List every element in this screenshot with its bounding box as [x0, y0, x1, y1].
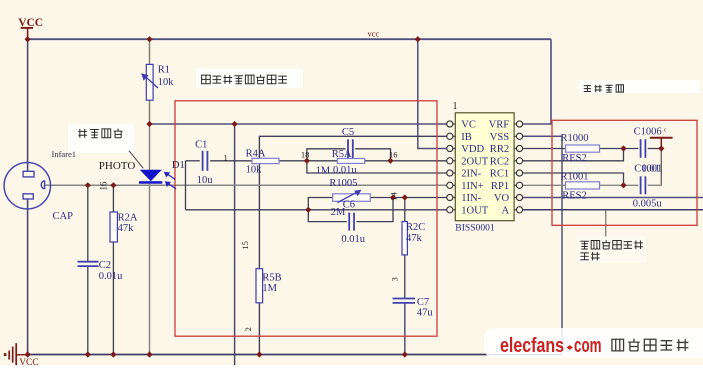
wire 2IN- branch	[307, 161, 447, 173]
wire C1 left	[186, 160, 200, 162]
red box signal amplifier/filter section	[175, 101, 437, 336]
capacitor C1	[202, 151, 204, 171]
capacitor C2	[78, 261, 99, 263]
svg-text:2M: 2M	[331, 207, 346, 218]
wire RR2 to R1000	[523, 148, 566, 150]
wire R5A to 2OUT pin	[365, 160, 447, 162]
wire C5 right jog	[355, 149, 390, 161]
svg-text:vcc: vcc	[368, 29, 380, 39]
svg-text:16: 16	[99, 181, 109, 191]
wire 1IN+ long signal	[45, 184, 447, 186]
svg-text:elecfans: elecfans	[500, 335, 564, 357]
junction C1006 VCC node	[658, 145, 664, 151]
capacitor C1006	[640, 139, 642, 158]
junction 1OUT feedback tap	[305, 207, 311, 213]
svg-text:PHOTO: PHOTO	[99, 160, 136, 172]
svg-text:2: 2	[243, 327, 253, 331]
photodiode D1	[140, 170, 162, 181]
svg-text:BISS0001: BISS0001	[455, 222, 495, 233]
svg-text:0.01u: 0.01u	[341, 234, 365, 245]
resistor R5B body	[256, 269, 263, 303]
wire R1000 to C1006	[600, 148, 639, 150]
svg-text:Infare1: Infare1	[52, 149, 77, 159]
wire RC2 jog	[523, 149, 624, 161]
wire IB to R5B	[259, 136, 446, 268]
junction RR2/RC2 node	[620, 145, 626, 151]
junction C7 ground	[402, 351, 408, 357]
pin RR2	[516, 145, 522, 151]
wire C6 right jog	[357, 198, 394, 222]
wire C2 top	[87, 185, 89, 261]
pin 2OUT	[447, 158, 453, 164]
pin IB	[447, 133, 453, 139]
resistor R1 arrow	[145, 76, 158, 88]
pin 1IN+	[447, 182, 453, 188]
wire R5B bottom	[258, 303, 260, 355]
watermark band	[484, 328, 703, 358]
wire R2A bottom	[112, 242, 114, 355]
wire D1 anode	[149, 124, 151, 170]
svg-text:0.005u: 0.005u	[633, 199, 663, 210]
junction R2A ground	[110, 351, 116, 357]
wire 1OUT row	[186, 209, 447, 211]
svg-text:CAP: CAP	[53, 211, 74, 222]
junction R5B ground	[256, 351, 262, 357]
wire C1001 right	[648, 184, 662, 186]
svg-text:VSS: VSS	[490, 132, 510, 143]
svg-text:R1000: R1000	[561, 133, 589, 144]
wire left rail lower	[27, 199, 29, 355]
svg-text:C2: C2	[99, 260, 111, 271]
pin 1OUT	[447, 207, 453, 213]
wire VSS down	[523, 136, 562, 354]
svg-text:2IN-: 2IN-	[461, 169, 481, 180]
svg-text:R1: R1	[158, 65, 170, 76]
resistor R1001 body	[566, 182, 600, 189]
svg-text:R1005: R1005	[329, 178, 357, 189]
svg-text:1OUT: 1OUT	[461, 205, 489, 216]
svg-text:C7: C7	[417, 297, 429, 308]
photodiode light arrows	[168, 174, 176, 179]
svg-text:10k: 10k	[246, 165, 263, 176]
svg-text:R2C: R2C	[406, 222, 425, 233]
svg-text:0.01: 0.01	[642, 164, 660, 175]
junction VCC rail left	[25, 36, 31, 42]
svg-text:1M: 1M	[316, 165, 331, 176]
svg-text:10k: 10k	[158, 77, 175, 88]
pin VO	[516, 194, 522, 200]
svg-text:47u: 47u	[417, 308, 434, 319]
junction ground rail left	[25, 351, 31, 357]
svg-text:0.01u: 0.01u	[333, 165, 357, 176]
wire R1 bottom	[149, 100, 151, 124]
capacitor C7	[393, 298, 416, 300]
svg-text:15: 15	[240, 241, 250, 250]
annotation: retrigger control line 1	[580, 241, 588, 249]
annotation: photoresistor	[78, 129, 87, 138]
capacitor C5	[347, 139, 349, 158]
pin VRF	[516, 121, 522, 127]
junction R1 bottom node	[146, 121, 152, 127]
wire 1OUT riser	[185, 161, 187, 210]
wire VCC top rail	[28, 38, 551, 40]
svg-text:R5A: R5A	[332, 149, 352, 160]
wire C7 to ground rail	[404, 303, 406, 354]
wire D1 cathode to ground rail	[149, 184, 151, 355]
svg-text:RES2: RES2	[562, 153, 587, 164]
capacitor C6	[348, 213, 350, 231]
svg-text:18: 18	[301, 150, 310, 160]
svg-text:1IN+: 1IN+	[461, 181, 483, 192]
wire C1 to R4A	[210, 160, 252, 162]
svg-text:14: 14	[389, 192, 399, 201]
junction node 16	[387, 158, 393, 164]
svg-text:D1: D1	[172, 160, 185, 171]
pin RC1	[516, 170, 522, 176]
svg-text:47k: 47k	[118, 223, 135, 234]
wire VCC stem	[27, 28, 29, 39]
red box delay section	[552, 120, 697, 225]
wire VRF to VCC rail	[523, 39, 551, 124]
pin 2IN-	[447, 170, 453, 176]
svg-text:1: 1	[224, 152, 228, 162]
annotation: delay circuit	[584, 86, 591, 92]
connector CAP (Infare1) body	[4, 163, 50, 209]
wire R1001 to C1001	[600, 184, 639, 186]
junction R2C tap	[402, 194, 408, 200]
wire caps right riser	[660, 149, 662, 186]
resistor R2C body	[402, 222, 407, 255]
wire C1006 right	[648, 148, 662, 150]
svg-text:VO: VO	[494, 193, 510, 204]
junction R2A tap	[110, 182, 116, 188]
power bar VCC (delay)	[650, 137, 673, 139]
junction VDD drop	[415, 36, 421, 42]
svg-text:VDD: VDD	[461, 144, 484, 155]
svg-text:1IN-: 1IN-	[461, 193, 481, 204]
svg-text:47k: 47k	[406, 233, 423, 244]
junction C2 ground	[85, 351, 91, 357]
resistor R1000 body	[566, 145, 600, 152]
wire RC1 jog	[523, 173, 624, 185]
junction R1 top	[146, 36, 152, 42]
svg-text:VC: VC	[461, 120, 476, 131]
wire C2 bottom	[87, 267, 89, 355]
svg-text:1: 1	[453, 101, 458, 112]
label background boxes	[196, 69, 303, 89]
pin VSS	[516, 133, 522, 139]
svg-text:R4A: R4A	[246, 148, 266, 159]
resistor R1 body	[146, 64, 153, 100]
wire R1005 to 1IN- pin	[370, 197, 446, 199]
wire R2C to C7	[404, 255, 406, 298]
junction C2 tap	[85, 182, 91, 188]
svg-text:C1: C1	[195, 139, 207, 150]
junction node 18	[304, 158, 310, 164]
resistor R5A body	[337, 159, 364, 164]
junction VC row tap	[232, 121, 238, 127]
pin VC	[447, 121, 453, 127]
svg-text:R1001: R1001	[561, 172, 589, 183]
junction photodiode ground	[146, 351, 152, 357]
svg-text:RC1: RC1	[490, 169, 509, 180]
svg-text:0.01u: 0.01u	[99, 271, 123, 282]
potentiometer R1005 body	[333, 194, 371, 202]
svg-text:R5B: R5B	[262, 273, 281, 284]
wire left rail upper	[27, 39, 29, 171]
annotation: signal amplifier filter circuit	[202, 75, 211, 84]
pin A	[516, 207, 522, 213]
pin RP1	[516, 182, 522, 188]
svg-text:2OUT: 2OUT	[461, 156, 489, 167]
pin 1IN-	[447, 194, 453, 200]
svg-text:3: 3	[389, 277, 399, 281]
svg-text:IB: IB	[461, 132, 472, 143]
svg-text:RC2: RC2	[490, 156, 509, 167]
wire R1 top	[149, 39, 151, 64]
svg-text:R2A: R2A	[118, 213, 138, 224]
wire C5 left jog	[307, 149, 346, 161]
pin RC2	[516, 158, 522, 164]
capacitor C1001	[640, 176, 642, 194]
svg-text:RES2: RES2	[562, 191, 587, 202]
pin VDD	[447, 145, 453, 151]
wire VC row	[150, 123, 447, 125]
svg-text:1M: 1M	[262, 283, 277, 294]
wire VO out	[523, 197, 703, 199]
op-amp IC U1 BISS0001 body	[455, 113, 514, 221]
resistor R2A body	[110, 212, 117, 242]
svg-text:com: com	[574, 335, 602, 357]
leader line photoresistor label	[129, 151, 143, 169]
svg-text:RR2: RR2	[490, 144, 509, 155]
svg-text:C1006: C1006	[634, 127, 662, 138]
svg-text:VRF: VRF	[489, 120, 510, 131]
junction RC1/RP1 node	[620, 182, 626, 188]
svg-text:A: A	[502, 205, 510, 216]
wire R1005 left / C6 left	[308, 198, 347, 222]
wire ground rail	[28, 354, 562, 356]
wire R2C top	[404, 198, 406, 222]
annotation: retrigger control line 2	[580, 253, 588, 260]
junction C6 tap	[390, 194, 396, 200]
svg-text:16: 16	[389, 149, 398, 159]
wire node column x235	[234, 124, 236, 365]
wire R2A top	[112, 185, 114, 212]
svg-text:10u: 10u	[197, 175, 214, 186]
wire VDD drop	[418, 39, 447, 148]
wire RP1 to R1001	[523, 184, 566, 186]
wire R4A to R5A	[279, 160, 337, 162]
wire A out	[523, 209, 703, 211]
leader line trigger label	[605, 210, 607, 237]
ground symbol bottom-left	[4, 353, 7, 356]
svg-text:C5: C5	[342, 127, 354, 138]
resistor R4A body	[252, 158, 279, 163]
svg-text:VCC: VCC	[19, 358, 39, 365]
potentiometer R1005 arrow	[338, 192, 357, 202]
watermark chinese brand	[612, 339, 624, 351]
svg-text:c: c	[664, 128, 667, 134]
svg-text:RP1: RP1	[491, 181, 509, 192]
